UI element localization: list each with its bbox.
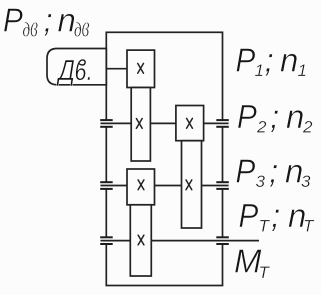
svg-text:2: 2 bbox=[302, 118, 313, 137]
svg-text:T: T bbox=[259, 217, 271, 236]
svg-text:;: ; bbox=[44, 1, 53, 38]
svg-text:P: P bbox=[3, 2, 23, 39]
svg-text:P: P bbox=[236, 42, 256, 79]
svg-text:2: 2 bbox=[256, 118, 267, 137]
svg-text:дϐ: дϐ bbox=[23, 18, 38, 41]
svg-text:3: 3 bbox=[256, 172, 266, 191]
svg-text:Дϐ.: Дϐ. bbox=[56, 53, 93, 86]
svg-text:n: n bbox=[286, 98, 304, 135]
svg-text:P: P bbox=[236, 153, 256, 190]
svg-text:T: T bbox=[303, 217, 315, 236]
svg-text:n: n bbox=[280, 42, 298, 79]
svg-text:T: T bbox=[259, 263, 271, 282]
svg-text:;: ; bbox=[271, 197, 280, 234]
svg-text:;: ; bbox=[265, 42, 274, 79]
svg-text:дϐ: дϐ bbox=[74, 18, 89, 41]
svg-text:n: n bbox=[58, 1, 76, 38]
svg-text:3: 3 bbox=[301, 172, 311, 191]
svg-text:1: 1 bbox=[298, 61, 307, 80]
svg-text:;: ; bbox=[270, 98, 279, 135]
svg-text:;: ; bbox=[269, 152, 278, 189]
svg-text:P: P bbox=[237, 99, 257, 136]
svg-text:P: P bbox=[239, 198, 259, 235]
svg-text:1: 1 bbox=[255, 61, 264, 80]
